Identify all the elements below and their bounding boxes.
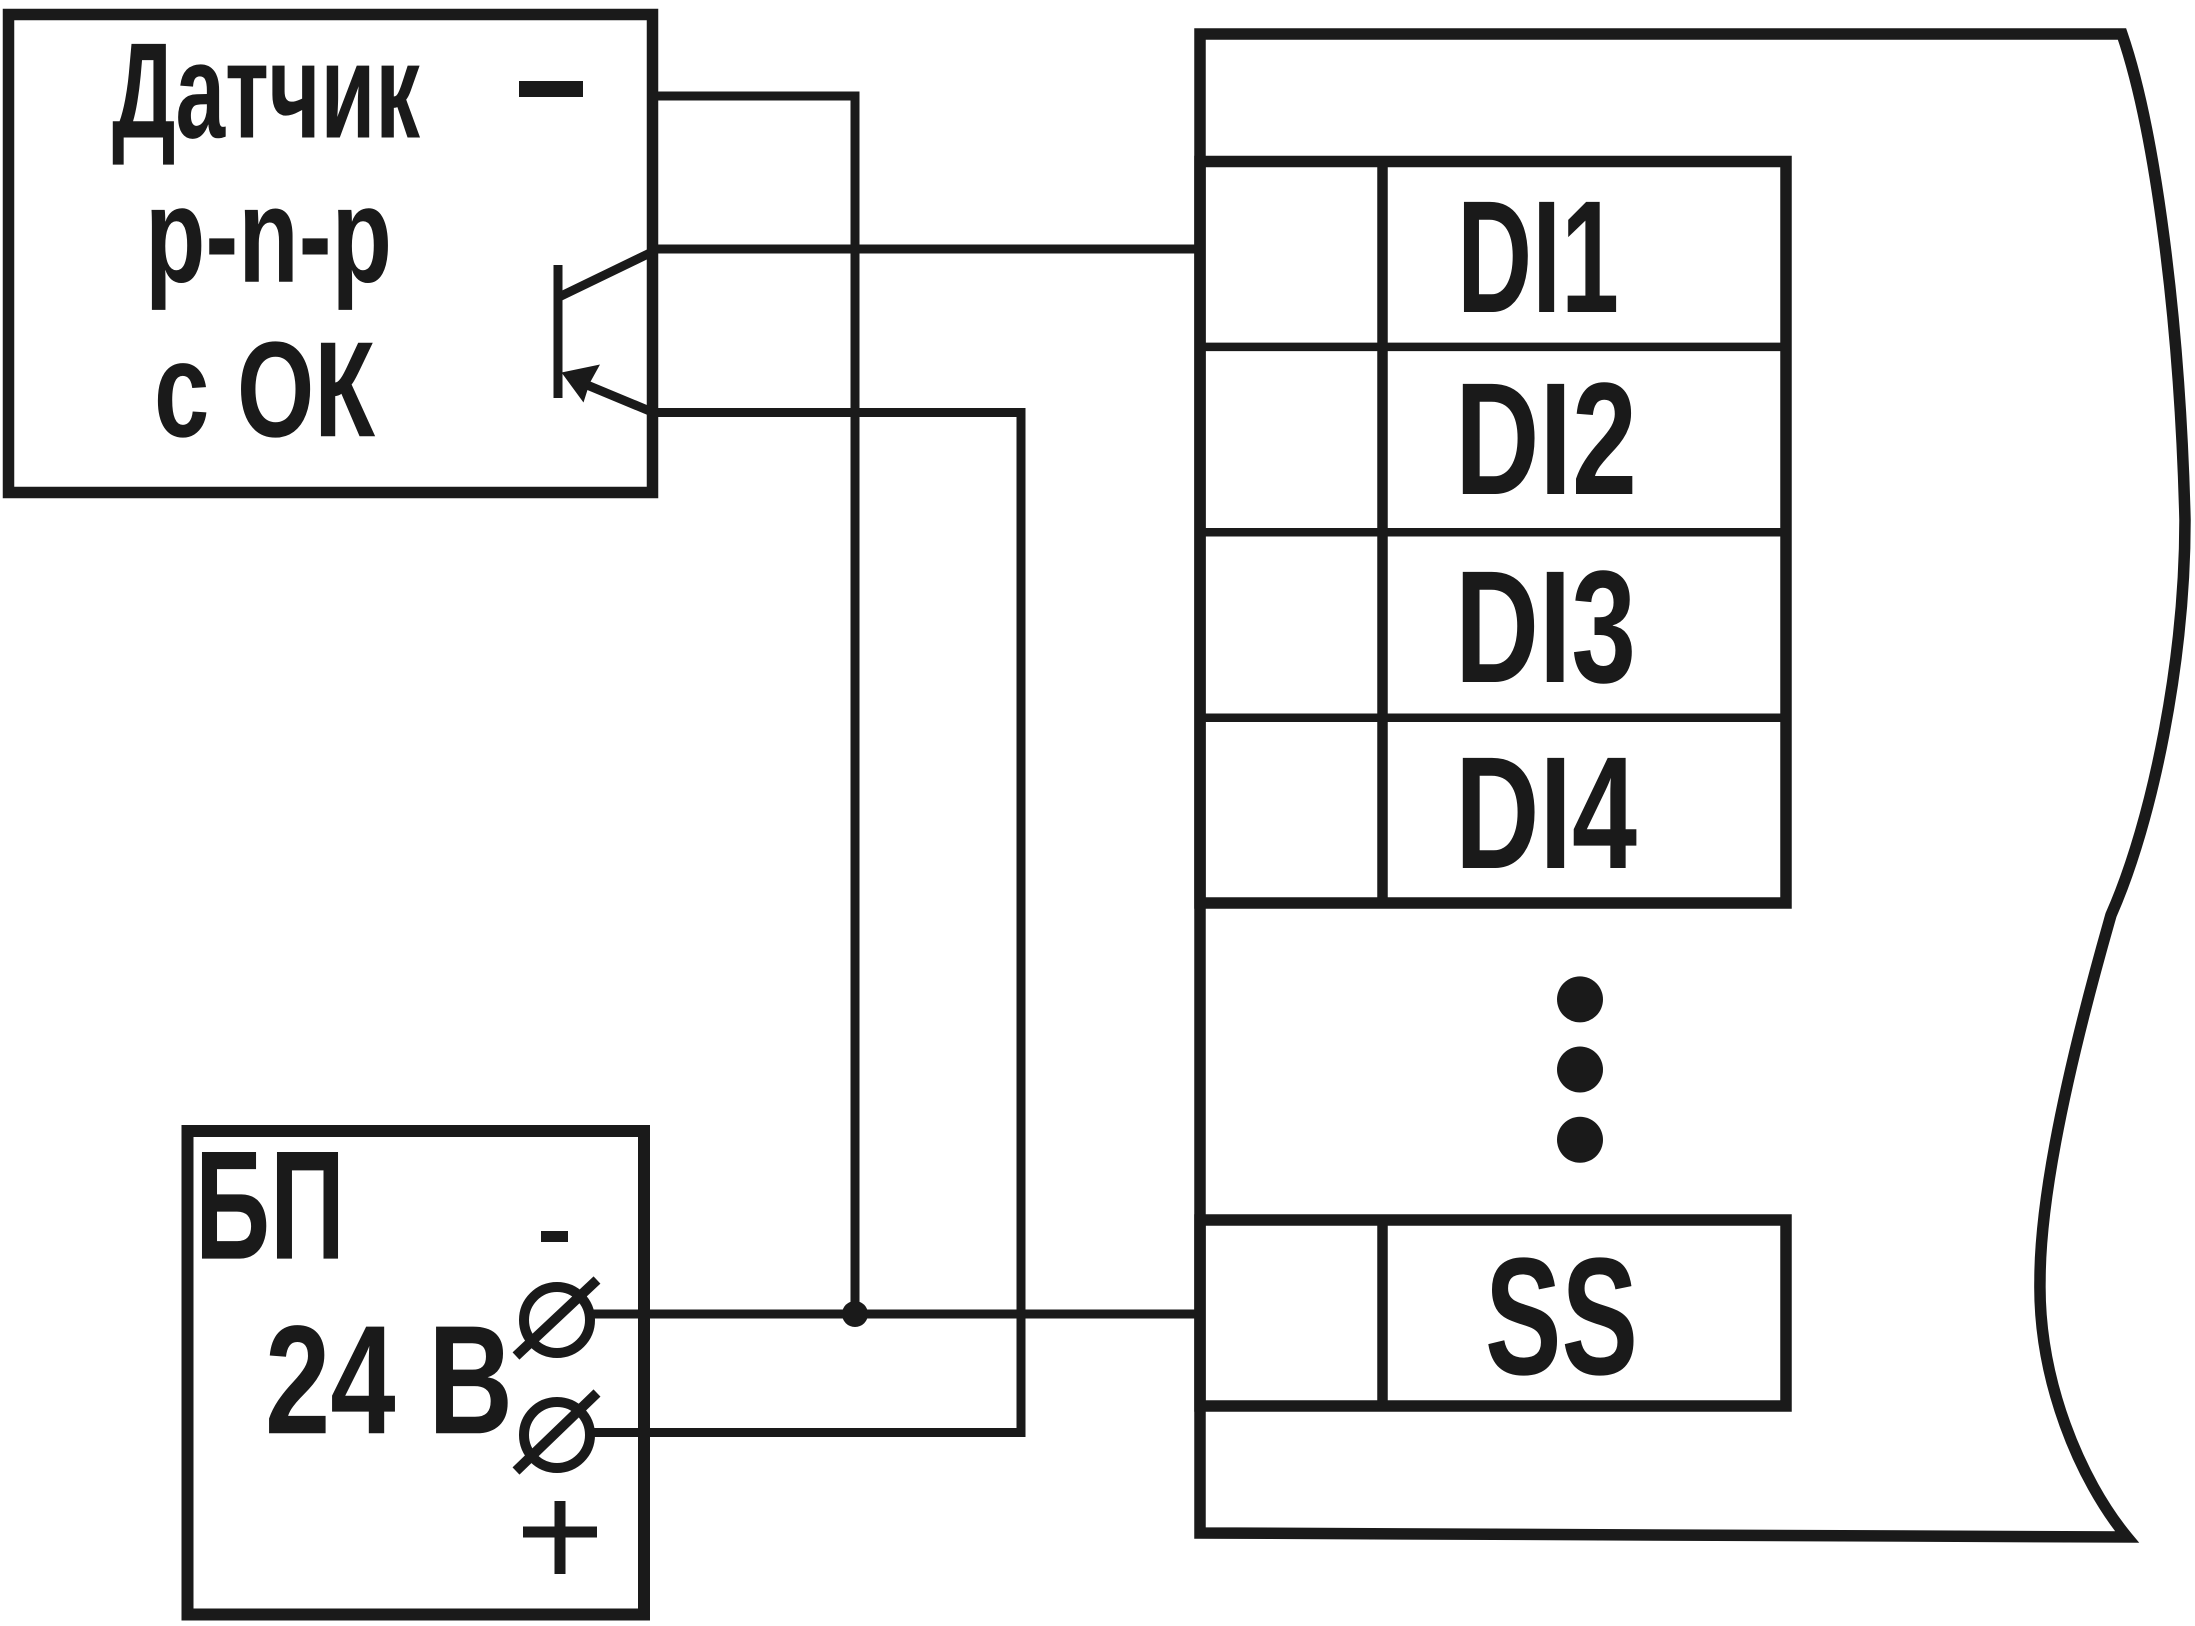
svg-text:SS: SS — [1485, 1224, 1638, 1410]
svg-text:с ОК: с ОК — [154, 313, 376, 465]
row divider 1 — [1200, 343, 1786, 352]
wire: sensor minus terminal to junction (down) — [652, 96, 855, 1314]
PSU screw terminal 1 (minus) — [516, 1280, 597, 1356]
svg-text:24 В: 24 В — [265, 1293, 513, 1466]
PSU minus label — [541, 1231, 568, 1242]
PSU screw terminal 2 (plus) — [516, 1393, 597, 1471]
SS vertical divider — [1377, 1220, 1388, 1406]
collector diagonal — [559, 252, 652, 297]
svg-text:БП: БП — [195, 1119, 345, 1292]
svg-text:DI3: DI3 — [1455, 537, 1636, 716]
junction node (minus net) — [842, 1301, 868, 1327]
transistor Q1 (p-n-p, open collector) — [558, 252, 652, 412]
svg-text:p-n-p: p-n-p — [145, 159, 392, 311]
svg-text:DI2: DI2 — [1455, 349, 1637, 528]
sensor box (Датчик p-n-p с ОК) — [9, 15, 653, 493]
module outline (DI input module with torn right edge) — [1200, 34, 2185, 1537]
vertical divider — [1377, 162, 1388, 904]
row divider 3 — [1200, 713, 1786, 722]
emitter diagonal — [575, 380, 652, 412]
sensor minus terminal label — [519, 81, 583, 97]
ellipsis dot 1 — [1557, 976, 1603, 1022]
ellipsis dot 2 — [1557, 1047, 1603, 1093]
emitter arrowhead — [562, 365, 601, 403]
power supply box (БП 24 В) — [188, 1131, 645, 1615]
wire: collector to module DI1 — [652, 245, 1200, 254]
ellipsis dot 3 — [1557, 1117, 1603, 1163]
wire: PSU minus terminal to module SS — [591, 1310, 1200, 1319]
svg-text:DI4: DI4 — [1455, 723, 1637, 902]
PSU plus label — [523, 1501, 597, 1574]
SS terminal row — [1200, 1220, 1786, 1406]
svg-text:DI1: DI1 — [1457, 167, 1619, 346]
row divider 2 — [1200, 528, 1786, 537]
terminal table (DI1-DI4) — [1200, 162, 1786, 904]
base bar — [554, 265, 563, 398]
wire: emitter to PSU plus terminal — [591, 413, 1021, 1433]
svg-text:Датчик: Датчик — [112, 15, 421, 167]
